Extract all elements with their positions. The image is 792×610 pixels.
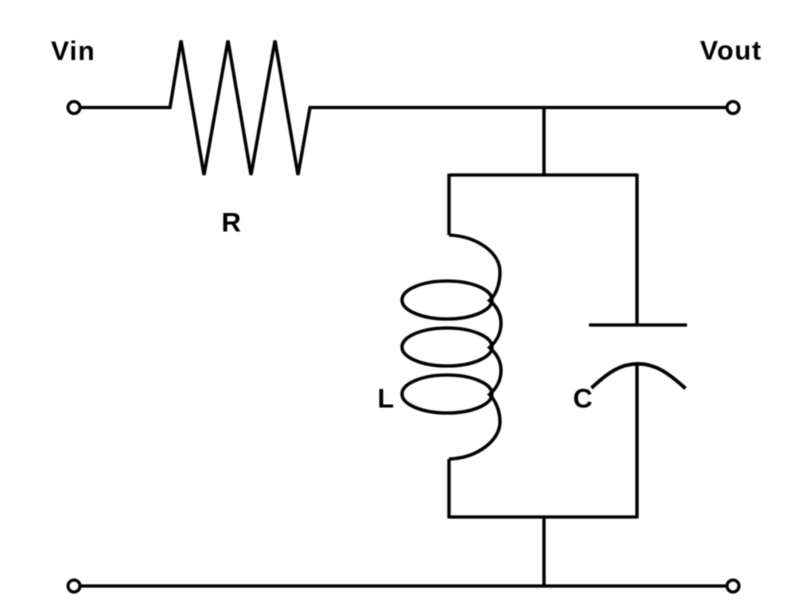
- svg-text:L: L: [378, 384, 395, 414]
- svg-text:R: R: [222, 208, 242, 238]
- svg-text:Vin: Vin: [51, 36, 96, 66]
- svg-text:Vout: Vout: [700, 36, 762, 66]
- svg-text:C: C: [573, 384, 593, 414]
